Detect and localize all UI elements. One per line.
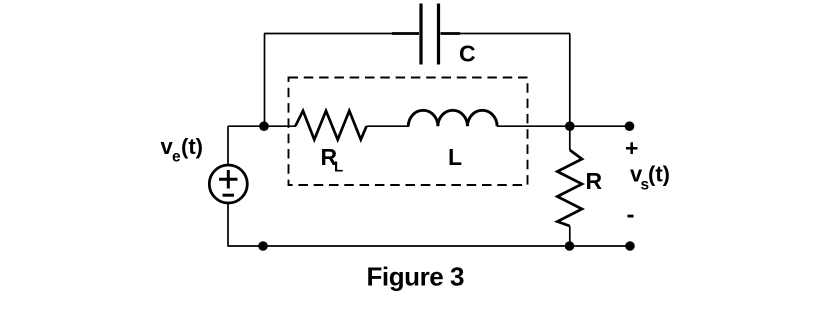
resistor RL xyxy=(296,111,367,140)
svg-text:(t): (t) xyxy=(648,162,670,187)
svg-text:C: C xyxy=(459,41,476,67)
wire: source bottom lead down to bottom rail xyxy=(227,203,229,246)
bottom-right junction dot xyxy=(565,241,575,251)
label RL xyxy=(321,144,344,176)
wire: middle horizontal from L to output terminal xyxy=(497,125,630,127)
label L xyxy=(448,144,462,170)
node B junction dot (right, middle wire) xyxy=(565,121,575,131)
output terminal dot (bottom right) xyxy=(625,241,635,251)
wire: source top lead xyxy=(227,126,229,165)
label vs(t) xyxy=(630,162,670,194)
svg-text:(t): (t) xyxy=(181,134,203,159)
svg-text:-: - xyxy=(627,202,635,229)
label - (output polarity) xyxy=(627,202,635,229)
inductor L xyxy=(408,110,497,126)
svg-text:Figure 3: Figure 3 xyxy=(367,262,465,292)
capacitor C xyxy=(392,4,460,65)
wire: top horizontal left segment to capacitor xyxy=(264,33,392,35)
label + (output polarity) xyxy=(625,135,638,161)
wire: top-right vertical down to node B xyxy=(569,34,571,127)
caption Figure 3 xyxy=(367,262,465,292)
wire: top horizontal right segment from capacitor xyxy=(460,33,570,35)
svg-text:L: L xyxy=(448,144,462,170)
wire: resistor R top lead xyxy=(569,126,571,150)
wire: between RL and L xyxy=(367,125,410,127)
label R xyxy=(586,168,603,194)
output terminal dot (top right) xyxy=(625,121,635,131)
resistor R xyxy=(557,150,582,226)
wire: middle horizontal from source top corner to RL xyxy=(228,125,296,127)
svg-text:e: e xyxy=(172,149,181,166)
wire: top-left vertical from node A up to capacitor branch xyxy=(264,34,266,127)
svg-text:L: L xyxy=(334,159,343,176)
bottom-left junction dot xyxy=(258,241,268,251)
node A junction dot (left, middle wire) xyxy=(259,121,269,131)
wire: bottom rail xyxy=(227,245,630,247)
label C xyxy=(459,41,476,67)
dashed enclosure around RL and L xyxy=(289,78,528,186)
voltage source V1 ve(t) xyxy=(209,165,247,203)
wire: resistor R bottom lead xyxy=(569,226,571,246)
svg-text:+: + xyxy=(625,135,638,161)
label ve(t) xyxy=(161,134,203,166)
svg-text:R: R xyxy=(586,168,603,194)
